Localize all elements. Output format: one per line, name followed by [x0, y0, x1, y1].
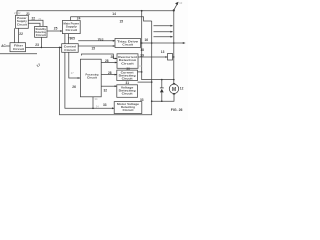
svg-text:15: 15 — [92, 46, 96, 50]
svg-text:Circuit: Circuit — [123, 108, 134, 112]
wire AC live — [6, 45, 10, 47]
svg-text:22: 22 — [32, 16, 36, 20]
wire F bottom stub — [92, 97, 94, 109]
arrow into G1 upper — [115, 58, 117, 60]
svg-text:30: 30 — [126, 67, 130, 71]
arrow into D — [60, 30, 62, 32]
box B filter circuit — [10, 43, 26, 52]
svg-text:33: 33 — [140, 98, 144, 102]
wire tap3 — [154, 36, 173, 38]
wire G2 to V1 — [138, 71, 142, 73]
arrow into G4 — [112, 107, 114, 109]
wire top L1 — [17, 11, 174, 16]
svg-text:28: 28 — [108, 71, 112, 75]
wire E to H upper — [78, 40, 115, 42]
wire diode branch — [161, 80, 163, 88]
svg-text:29: 29 — [140, 54, 144, 58]
box C standby detecting circuit — [35, 26, 47, 37]
box E control circuit — [62, 44, 78, 53]
svg-text:AC: AC — [1, 44, 6, 48]
svg-text:23: 23 — [35, 43, 39, 47]
svg-text:22: 22 — [19, 32, 23, 36]
svg-text:Circuit: Circuit — [13, 47, 24, 51]
wire V1 — [142, 11, 174, 80]
arrow switch arm — [175, 2, 178, 5]
svg-text:26: 26 — [72, 85, 76, 89]
svg-text:33: 33 — [103, 103, 107, 107]
wire tap1 — [154, 25, 173, 27]
svg-text:21 22: 21 22 — [14, 11, 21, 15]
wire H to bus with arrow — [141, 42, 184, 44]
svg-text:Circuit: Circuit — [36, 33, 46, 37]
box F processing circuit — [80, 59, 101, 97]
svg-text:31: 31 — [126, 81, 130, 85]
svg-text:32: 32 — [104, 89, 108, 93]
wire right bus — [173, 10, 175, 84]
svg-text:25: 25 — [54, 27, 58, 31]
svg-text:12: 12 — [180, 87, 184, 91]
wire E drop to F — [69, 52, 81, 78]
wire A to C lower — [28, 23, 40, 26]
svg-text:28: 28 — [105, 59, 109, 63]
wire D top stub — [70, 17, 72, 21]
arrow tap3 — [170, 36, 173, 38]
svg-text:13: 13 — [161, 50, 165, 54]
wire F to G3 — [101, 85, 117, 87]
wire G1 to sense box — [138, 56, 168, 58]
wire top L2 — [71, 17, 152, 21]
arrow tap2 — [170, 31, 173, 33]
diode D1 — [160, 88, 164, 93]
arrow into H upper — [113, 40, 115, 42]
box G3 voltage detecting circuit — [117, 85, 138, 98]
wire switch arm — [174, 4, 178, 10]
svg-text:Circuit: Circuit — [64, 48, 76, 52]
box A power supply circuit — [16, 15, 29, 28]
wire sense box to bus — [173, 56, 174, 58]
wire bottom outer — [60, 47, 152, 114]
svg-text:14: 14 — [112, 12, 116, 16]
arrow into G2 — [115, 74, 117, 76]
arrow into E — [60, 47, 62, 49]
box G4 motor voltage detecting circuit — [114, 102, 142, 114]
wire AC neutral under filter — [0, 53, 37, 55]
wire A-B vertical 2 — [18, 28, 20, 42]
svg-text:Circuit: Circuit — [122, 91, 133, 95]
wire F to G2 — [101, 74, 117, 76]
wire G3 to V2 — [138, 81, 152, 83]
box D main power supply circuit — [62, 21, 80, 34]
wire E drop mid — [65, 52, 114, 108]
wire C to D — [47, 30, 62, 32]
arrow into G3 — [115, 85, 117, 87]
svg-text:Circuit: Circuit — [87, 76, 97, 80]
svg-text:Circuit: Circuit — [121, 61, 134, 65]
wire V2 — [151, 21, 153, 101]
arrow into H lower — [113, 45, 115, 47]
svg-text:Circuit: Circuit — [17, 22, 27, 26]
svg-text:Vcc: Vcc — [98, 38, 104, 42]
wire D-E vertical 1 — [64, 34, 66, 44]
svg-text:18: 18 — [140, 48, 144, 52]
wire B to E — [26, 46, 62, 48]
wire F to G1 — [101, 62, 117, 64]
svg-text:Circuit: Circuit — [66, 28, 78, 32]
wire tap2 — [154, 31, 173, 33]
sense box — [168, 54, 173, 61]
arrow into F — [78, 77, 81, 79]
box H drive circuit — [115, 39, 141, 48]
svg-text:FIG. 26: FIG. 26 — [171, 108, 183, 112]
arrow tap1 — [170, 25, 173, 27]
wire D-E vertical 2 — [68, 34, 70, 44]
box G2 current detecting circuit — [117, 70, 138, 80]
wire A-B vertical 1 — [14, 28, 16, 42]
svg-text:7805: 7805 — [68, 37, 75, 41]
arrowheads — [170, 2, 185, 44]
arrow into sense box — [165, 56, 167, 58]
wire E to H lower — [78, 45, 115, 47]
arrow into G1 — [115, 62, 117, 64]
motor M — [169, 83, 178, 94]
box G1 overcurrent detection circuit — [117, 54, 138, 69]
junction dots — [41, 9, 175, 109]
svg-text:15: 15 — [120, 19, 124, 23]
arrow H43 — [183, 42, 186, 44]
svg-text:M: M — [172, 87, 176, 93]
svg-text:21: 21 — [26, 12, 30, 16]
svg-text:16: 16 — [145, 38, 149, 42]
svg-text:28: 28 — [111, 55, 115, 59]
wire A to C upper — [28, 20, 43, 26]
svg-text:Circuit: Circuit — [122, 43, 133, 47]
svg-text:24: 24 — [77, 17, 81, 21]
wire motor bottom return — [152, 94, 174, 102]
svg-text:Circuit: Circuit — [122, 76, 133, 80]
wire upper to G1 — [82, 54, 118, 59]
wire C bottom drop — [40, 37, 42, 47]
